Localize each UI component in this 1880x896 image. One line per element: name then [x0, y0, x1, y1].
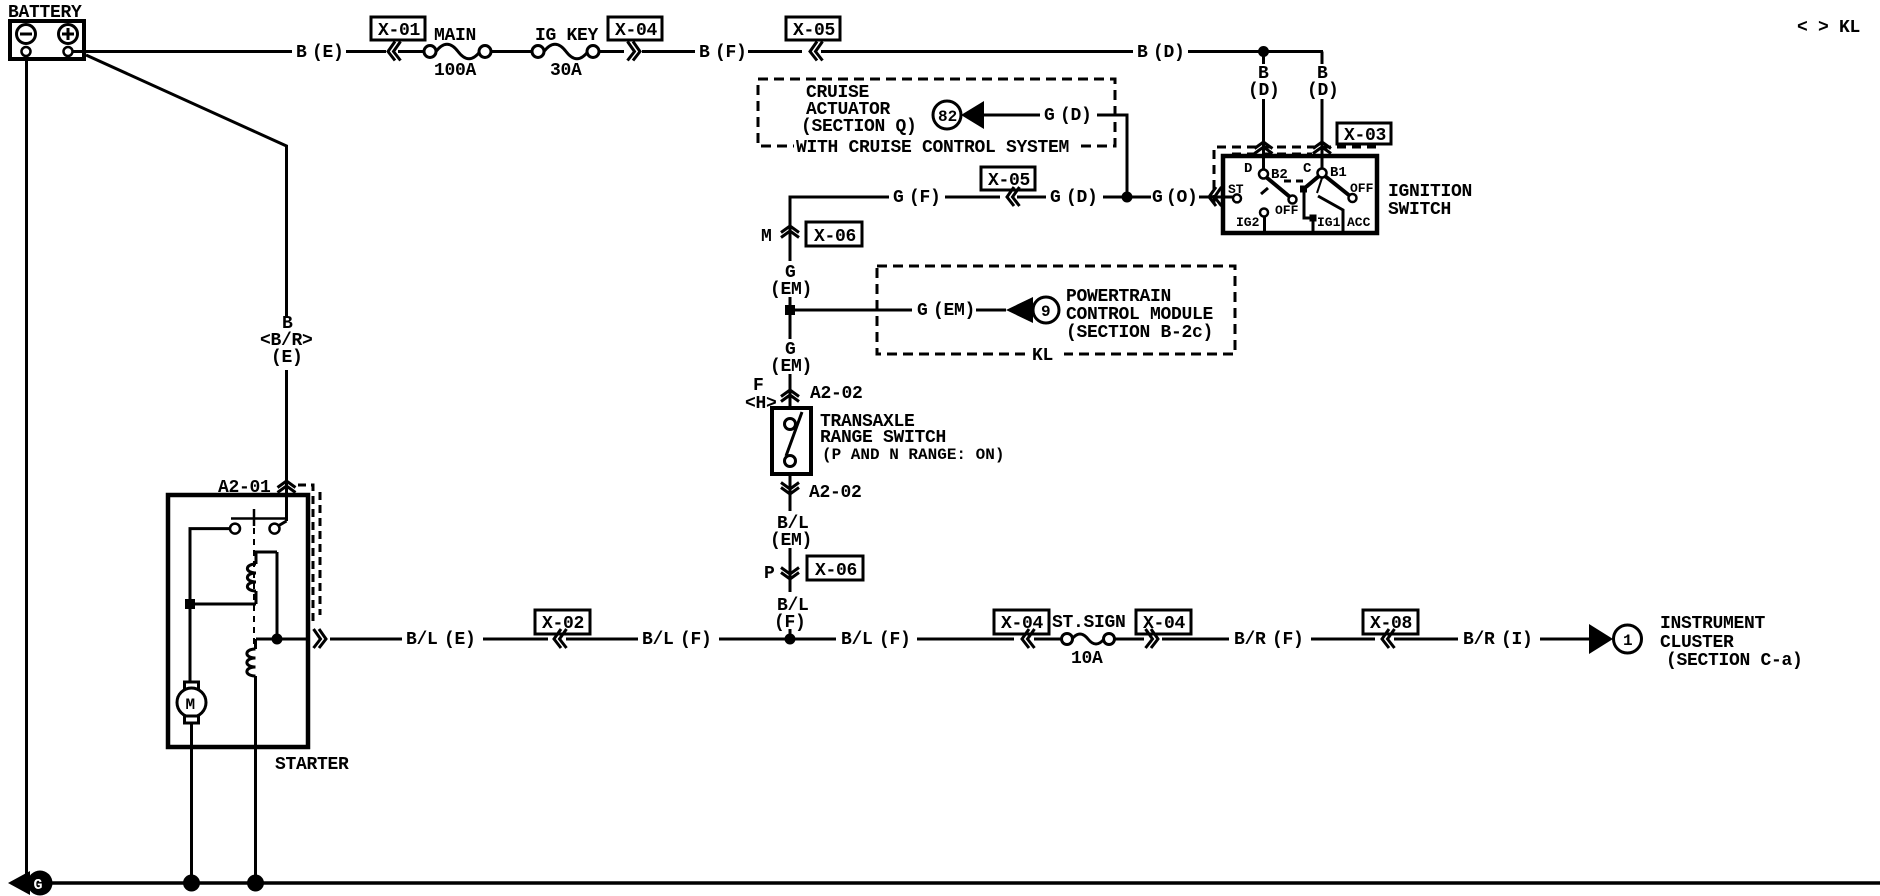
pcm pin 9 circle	[1033, 297, 1059, 323]
svg-text:KL: KL	[1032, 346, 1053, 366]
G line wire from corner	[790, 197, 889, 221]
junction B/L	[785, 634, 796, 645]
connector A2-01 chevron right exit	[314, 629, 327, 648]
connector X-01 label box	[371, 17, 425, 41]
ignition connector chevron up left	[1255, 142, 1273, 154]
svg-text:POWERTRAIN: POWERTRAIN	[1066, 287, 1171, 307]
wire G EM to PCM	[795, 309, 912, 312]
powertrain control module text	[1066, 287, 1214, 343]
svg-text:OFF: OFF	[1350, 181, 1374, 196]
svg-text:X-03: X-03	[1344, 126, 1386, 146]
wire left terminal down	[190, 529, 230, 683]
junction G	[1122, 192, 1133, 203]
svg-text:G: G	[1152, 188, 1163, 208]
wire	[1311, 638, 1375, 641]
connector X-02 label box	[535, 610, 590, 634]
connector X-04 chevron	[628, 42, 641, 61]
transaxle range switch	[772, 408, 811, 474]
connector X-06 chevron up at M	[781, 226, 799, 238]
svg-text:X-04: X-04	[1001, 614, 1044, 634]
svg-text:M: M	[186, 696, 196, 714]
with cruise control system label	[794, 138, 1081, 158]
svg-text:A2-02: A2-02	[810, 384, 863, 404]
wire	[1394, 638, 1458, 641]
svg-text:STARTER: STARTER	[275, 755, 349, 775]
svg-text:(E): (E)	[312, 43, 344, 63]
svg-text:F: F	[753, 376, 764, 396]
wire into ignition switch	[1199, 196, 1233, 199]
junction ground motor	[183, 875, 200, 892]
svg-text:WITH CRUISE CONTROL SYSTEM: WITH CRUISE CONTROL SYSTEM	[796, 138, 1069, 158]
svg-text:IG KEY: IG KEY	[535, 26, 599, 46]
svg-text:1: 1	[1623, 632, 1633, 650]
wire to corner	[1097, 115, 1127, 192]
svg-text:X-02: X-02	[542, 614, 584, 634]
connector X-04 label box left	[994, 610, 1049, 634]
cruise actuator arrow	[961, 101, 984, 129]
connector X-04 label box right	[1136, 610, 1191, 634]
starter actuator dashed rod	[253, 528, 255, 645]
cruise actuator text	[801, 83, 917, 137]
instrument cluster arrow	[1589, 624, 1613, 654]
cruise actuator dashed box	[758, 79, 1115, 146]
svg-text:B1: B1	[1330, 165, 1347, 181]
connector X-05 label box	[786, 17, 840, 41]
svg-text:IGNITION: IGNITION	[1388, 182, 1472, 202]
svg-text:CLUSTER: CLUSTER	[1660, 633, 1734, 653]
svg-text:MAIN: MAIN	[434, 26, 476, 46]
svg-text:A2-02: A2-02	[809, 483, 862, 503]
svg-text:(F): (F)	[680, 630, 712, 650]
svg-text:X-06: X-06	[815, 561, 857, 581]
wire	[1162, 638, 1229, 641]
svg-text:B/L: B/L	[642, 630, 674, 650]
connector X-06 label box bottom	[807, 556, 863, 581]
svg-text:(P AND N RANGE: ON): (P AND N RANGE: ON)	[822, 446, 1004, 464]
svg-text:(SECTION Q): (SECTION Q)	[801, 117, 917, 137]
node B <B/R> (E)	[260, 314, 313, 368]
connector X-06 label box top	[806, 222, 862, 247]
wire battery positive top horizontal	[72, 50, 292, 53]
wire B/L (E)	[330, 638, 402, 641]
wire	[566, 638, 638, 641]
ignition switch label	[1388, 182, 1472, 220]
wire	[748, 50, 802, 53]
svg-text:(I): (I)	[1501, 630, 1533, 650]
wire	[398, 50, 424, 53]
wire	[346, 50, 386, 53]
wire	[491, 50, 532, 53]
connector X-08 label box	[1363, 610, 1418, 634]
ignition switch box	[1223, 156, 1377, 233]
wire	[1017, 196, 1046, 199]
svg-text:(D): (D)	[1060, 106, 1092, 126]
wire	[1103, 196, 1151, 199]
wire	[917, 638, 1014, 641]
wire	[945, 196, 1000, 199]
pcm arrow	[1006, 297, 1033, 323]
wire	[821, 50, 1133, 53]
svg-text:X-08: X-08	[1370, 614, 1412, 634]
connector A2-02 chevron down	[781, 483, 799, 495]
svg-text:(D): (D)	[1153, 43, 1185, 63]
connector A2-01 chevron up	[278, 481, 296, 493]
wire junction to coil	[190, 603, 256, 606]
connector X-03 label box	[1337, 123, 1391, 146]
connector X-01 chevron	[388, 42, 401, 61]
connector A2-01 dashed boundary	[298, 485, 320, 622]
fuse IG KEY 30A	[532, 26, 599, 81]
svg-text:IG2: IG2	[1236, 215, 1260, 230]
wire G vertical main	[789, 197, 792, 261]
svg-text:10A: 10A	[1071, 649, 1103, 669]
wire	[483, 638, 548, 641]
junction G EM	[785, 305, 795, 315]
wire	[789, 297, 792, 339]
svg-text:G: G	[917, 301, 928, 321]
svg-text:X-04: X-04	[615, 21, 658, 41]
svg-text:(F): (F)	[1272, 630, 1304, 650]
svg-text:(SECTION B-2c): (SECTION B-2c)	[1066, 323, 1213, 343]
svg-text:G: G	[1050, 188, 1061, 208]
wire	[1188, 50, 1323, 53]
svg-text:(O): (O)	[1166, 188, 1198, 208]
ignition connector chevron up right	[1313, 142, 1331, 154]
wire	[1540, 638, 1590, 641]
svg-text:(EM): (EM)	[933, 301, 975, 321]
connector X-04 chevron left	[1022, 629, 1035, 648]
starter box	[168, 495, 308, 747]
svg-text:9: 9	[1041, 303, 1051, 321]
wire drop to ignition D	[1262, 99, 1265, 170]
wire	[984, 114, 1040, 117]
wire motor to ground	[190, 723, 193, 883]
starter pull-in coil	[247, 552, 277, 604]
junction starter	[185, 599, 195, 609]
svg-text:RANGE SWITCH: RANGE SWITCH	[820, 428, 946, 448]
ignition connector chevron left	[1209, 187, 1222, 206]
svg-text:< > KL: < > KL	[1797, 18, 1860, 38]
connector X-04 label box	[608, 17, 662, 41]
wire	[789, 374, 792, 408]
connector X-05 chevron mid	[1007, 187, 1020, 206]
svg-text:X-04: X-04	[1143, 614, 1186, 634]
svg-text:SWITCH: SWITCH	[1388, 200, 1451, 220]
svg-text:B/R: B/R	[1234, 630, 1266, 650]
starter switch	[230, 509, 287, 534]
svg-text:100A: 100A	[434, 61, 477, 81]
wire	[642, 50, 695, 53]
battery diagonal wire to starter	[86, 55, 287, 318]
instrument cluster pin 1 circle	[1614, 625, 1642, 653]
svg-text:IG1: IG1	[1317, 215, 1341, 230]
wire down from junction	[1262, 52, 1265, 65]
wire coil top to BL junction	[276, 552, 279, 639]
junction ground coil	[247, 875, 264, 892]
svg-text:(E): (E)	[271, 348, 303, 368]
junction starter BL	[272, 634, 283, 645]
svg-text:(F): (F)	[879, 630, 911, 650]
wire below transaxle	[789, 474, 792, 511]
connector X-05 chevron	[810, 42, 823, 61]
svg-text:B: B	[1137, 43, 1148, 63]
wire	[976, 309, 1006, 312]
wire	[1115, 638, 1144, 641]
battery	[10, 21, 84, 59]
powertrain control module dashed box	[877, 266, 1235, 354]
wire battery negative to ground	[25, 56, 28, 883]
svg-text:ST.SIGN: ST.SIGN	[1052, 613, 1126, 633]
svg-text:B/L: B/L	[841, 630, 873, 650]
svg-text:X-05: X-05	[988, 171, 1030, 191]
connector X-04 chevron right	[1146, 629, 1159, 648]
connector A2-02 chevron up	[781, 390, 799, 402]
svg-text:(D): (D)	[1066, 188, 1098, 208]
wire BL inside starter	[256, 638, 308, 641]
svg-text:B/L: B/L	[406, 630, 438, 650]
svg-text:P: P	[764, 564, 775, 584]
svg-text:X-06: X-06	[814, 227, 856, 247]
starter hold coil	[247, 639, 256, 883]
svg-text:(D): (D)	[1248, 81, 1280, 101]
ignition connector dashed boundary	[1214, 147, 1381, 204]
connector X-08 chevron	[1382, 629, 1395, 648]
wire drop to ignition C	[1321, 99, 1324, 169]
ignition switch internals	[1228, 161, 1374, 231]
svg-text:(F): (F)	[909, 188, 941, 208]
wire	[719, 638, 786, 641]
svg-text:82: 82	[938, 108, 957, 126]
junction	[1258, 46, 1269, 57]
connector X-02 chevron	[554, 629, 567, 648]
transaxle range switch label	[820, 412, 1004, 464]
svg-text:X-05: X-05	[793, 21, 835, 41]
wire to starter	[285, 370, 288, 521]
node KL	[1028, 346, 1064, 366]
svg-text:OFF: OFF	[1275, 203, 1299, 218]
fuse ST.SIGN 10A	[1062, 634, 1115, 670]
svg-text:CONTROL MODULE: CONTROL MODULE	[1066, 305, 1214, 325]
svg-text:ACC: ACC	[1347, 215, 1371, 230]
connector X-06 chevron down at P	[781, 568, 799, 580]
svg-text:B: B	[296, 43, 307, 63]
instrument cluster label	[1660, 614, 1803, 671]
wire corner down	[1321, 52, 1324, 65]
wire	[599, 50, 624, 53]
fuse MAIN 100A	[424, 26, 491, 81]
svg-text:X-01: X-01	[378, 21, 421, 41]
svg-text:G: G	[1044, 106, 1055, 126]
ground bus wire	[26, 881, 1880, 885]
connector X-05 label box mid	[981, 167, 1035, 191]
svg-text:(SECTION C-a): (SECTION C-a)	[1666, 651, 1803, 671]
svg-text:B/R: B/R	[1463, 630, 1495, 650]
svg-text:G: G	[893, 188, 904, 208]
svg-text:D: D	[1244, 161, 1252, 177]
svg-text:(E): (E)	[444, 630, 476, 650]
svg-text:B: B	[699, 43, 710, 63]
wire	[789, 548, 792, 592]
cruise actuator pin 82 circle	[933, 101, 961, 129]
svg-text:(D): (D)	[1307, 81, 1339, 101]
ground G symbol	[8, 871, 53, 896]
wire	[789, 629, 792, 641]
svg-text:(F): (F)	[715, 43, 747, 63]
wire	[1034, 638, 1062, 641]
svg-text:G: G	[34, 877, 43, 894]
svg-text:INSTRUMENT: INSTRUMENT	[1660, 614, 1766, 634]
svg-text:M: M	[761, 227, 772, 247]
wire	[794, 638, 836, 641]
svg-text:30A: 30A	[550, 61, 582, 81]
svg-text:C: C	[1303, 161, 1312, 177]
starter motor M	[177, 682, 206, 723]
